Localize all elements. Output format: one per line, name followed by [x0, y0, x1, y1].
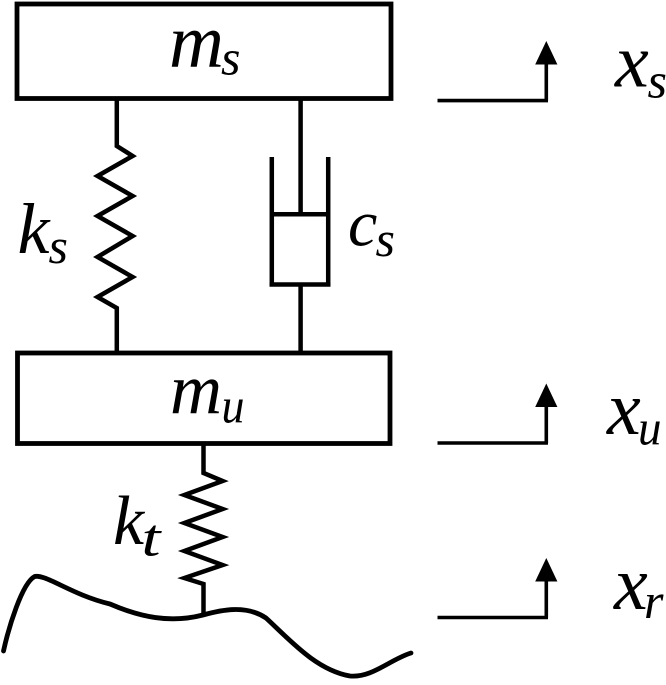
- mass m_u (unsprung mass box): [18, 353, 391, 444]
- arrow x_u : baseline: [438, 441, 549, 445]
- svg-text:k: k: [18, 189, 52, 269]
- arrow x_u : head: [535, 384, 557, 408]
- arrow x_r : shaft: [544, 580, 548, 618]
- svg-text:m: m: [170, 350, 222, 430]
- arrow x_s : shaft: [544, 63, 548, 101]
- spring k_s: [98, 99, 133, 354]
- damper c_s : piston rod upper: [298, 99, 303, 215]
- svg-text:u: u: [222, 378, 245, 434]
- arrow x_u : shaft: [544, 406, 548, 444]
- svg-text:t: t: [142, 510, 163, 568]
- svg-text:s: s: [49, 218, 68, 274]
- svg-text:m: m: [169, 0, 224, 84]
- svg-text:x: x: [606, 367, 641, 451]
- mass m_s (sprung mass box): [17, 4, 391, 99]
- svg-text:s: s: [648, 53, 666, 109]
- svg-text:s: s: [376, 211, 395, 267]
- arrow x_s : head: [535, 41, 557, 65]
- svg-text:x: x: [614, 20, 649, 104]
- svg-text:r: r: [644, 573, 664, 629]
- svg-text:c: c: [348, 188, 377, 261]
- damper c_s : cylinder bottom: [270, 282, 331, 287]
- damper c_s : right cylinder wall: [326, 157, 331, 285]
- arrow x_r : baseline: [438, 616, 549, 620]
- spring k_t (tire stiffness): [184, 444, 222, 616]
- damper c_s : rod lower: [298, 285, 303, 354]
- road profile x_r (wavy ground line): [4, 576, 412, 676]
- svg-text:s: s: [221, 30, 240, 86]
- svg-text:x: x: [613, 542, 648, 626]
- damper c_s : piston plate: [272, 212, 328, 217]
- arrow x_s : baseline: [438, 99, 549, 103]
- damper c_s : left cylinder wall: [270, 157, 275, 285]
- arrow x_r : head: [535, 558, 557, 582]
- svg-text:u: u: [638, 400, 662, 456]
